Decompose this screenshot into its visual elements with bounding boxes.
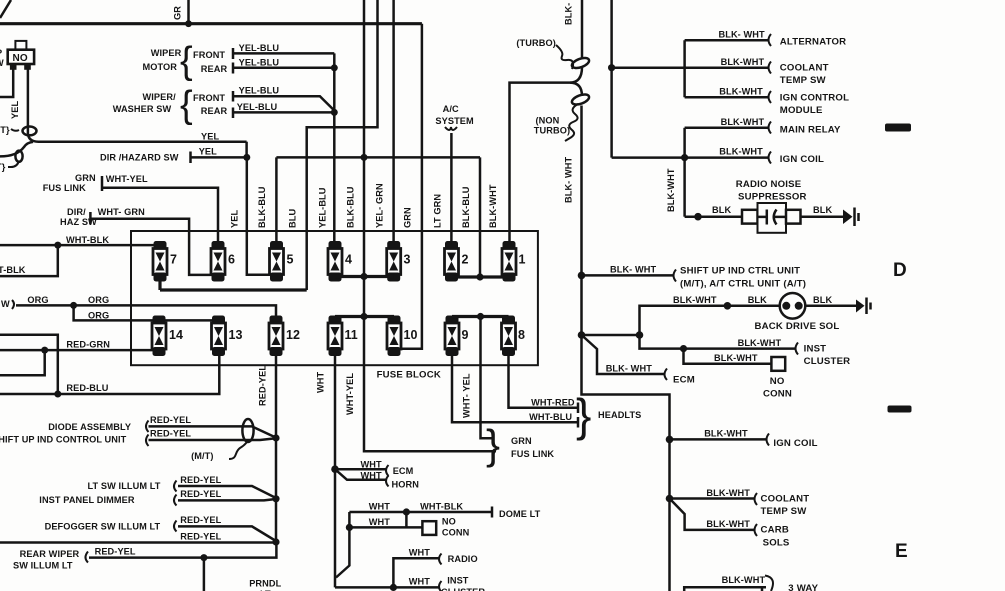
svg-text:A/C: A/C: [443, 104, 459, 114]
wire LT GRN from A/C to fuse 2: [450, 133, 453, 243]
svg-text:LT GRN: LT GRN: [433, 194, 443, 228]
fuse F3: [387, 241, 411, 282]
wire (M/T) second hook stub: [0, 161, 19, 172]
label RADIO NOISE SUPPRESSOR: [736, 179, 807, 203]
wire fuse 7 bottom rail: [160, 280, 307, 290]
wire WHT-YEL center: from rails down below block: [345, 317, 496, 452]
svg-text:MODULE: MODULE: [780, 105, 823, 116]
svg-text:BLK- WHT: BLK- WHT: [610, 265, 657, 275]
svg-text:7: 7: [170, 253, 177, 267]
fuse F8: [502, 316, 526, 357]
fuse F5: [270, 241, 294, 282]
solenoid BACK DRIVE SOL: [755, 293, 857, 332]
svg-text:RED-YEL: RED-YEL: [95, 547, 136, 557]
fuse F13: [212, 316, 243, 357]
svg-text:ORG: ORG: [88, 295, 109, 305]
fuse F9: [445, 316, 469, 357]
svg-text:WHT: WHT: [409, 548, 431, 558]
svg-text:RED-GRN: RED-GRN: [66, 340, 110, 350]
svg-text:E: E: [895, 541, 908, 562]
wire RED-GRN to fuse 14 bottom: [0, 340, 156, 376]
svg-text:INST: INST: [804, 344, 827, 355]
svg-text:INST: INST: [447, 576, 469, 586]
wire WHT to RADIO: [390, 548, 478, 591]
label DIR/HAZARD SW: [100, 132, 219, 164]
svg-text:PRNDL: PRNDL: [249, 579, 281, 589]
wire BLK-BLU center net: [276, 0, 480, 316]
svg-text:3 WAY: 3 WAY: [788, 583, 818, 591]
label FUSE BLOCK: [377, 370, 441, 381]
wire BLK-WHT to NO CONN (right): [684, 349, 793, 400]
svg-text:RED-YEL: RED-YEL: [150, 415, 191, 425]
svg-text:WHT-BLK: WHT-BLK: [420, 502, 463, 512]
svg-text:GRN: GRN: [403, 207, 413, 228]
svg-text:W: W: [0, 58, 4, 68]
svg-text:IGN CONTROL: IGN CONTROL: [780, 93, 849, 104]
fuse F7: [153, 241, 177, 282]
fuse F10: [387, 316, 417, 357]
svg-text:REAR WIPER: REAR WIPER: [20, 549, 80, 559]
wire RED-BLU to fuse 13 bottom: [0, 352, 219, 398]
svg-text:REAR: REAR: [201, 64, 228, 74]
svg-text:BLK-BLU: BLK-BLU: [346, 186, 356, 228]
svg-text:TEMP SW: TEMP SW: [761, 506, 808, 517]
wire NO switch left terminal to left edge: [0, 70, 13, 98]
label (TURBO) with squiggle: [516, 38, 573, 69]
svg-text:BLK-BLU: BLK-BLU: [461, 186, 471, 228]
svg-text:FUS LINK: FUS LINK: [511, 449, 554, 459]
wire wiper motor FRONT YEL-BLU: [233, 43, 334, 59]
wire BLU: top vertical jog to fuse 7 bottom rail: [307, 0, 378, 290]
wire washer REAR YEL-BLU: [233, 102, 338, 118]
svg-text:BLK-WHT: BLK-WHT: [738, 338, 782, 348]
wire WHT-GRN to fuse 6 bottom: [90, 219, 212, 275]
svg-text:WIPER/: WIPER/: [143, 92, 177, 102]
svg-text:WHT: WHT: [316, 371, 326, 393]
label DEFOGGER SW ILLUM LT: [45, 515, 222, 532]
connector ring non-turbo: [571, 92, 591, 106]
label DIR/HAZ SW: [60, 207, 145, 227]
wire YEL vertical to fuse 5 bottom: [247, 157, 270, 274]
wire WHT-BLU from fuse 9 to headlts: [452, 352, 578, 428]
svg-text:RADIO NOISE: RADIO NOISE: [736, 179, 802, 190]
svg-text:NO: NO: [442, 517, 456, 527]
svg-text:ECM: ECM: [673, 375, 695, 386]
svg-text:ORG: ORG: [27, 295, 48, 305]
svg-text:ORG: ORG: [88, 311, 109, 321]
letter E: [895, 541, 908, 562]
svg-text:INST PANEL DIMMER: INST PANEL DIMMER: [39, 495, 135, 505]
connector loop ellipse on diode/shift wires: [191, 419, 253, 461]
label SHIFT UP IND CONTROL UNIT: [0, 429, 191, 447]
wire BLK-WHT to IGN COIL (upper): [612, 128, 824, 165]
svg-text:YEL-BLU: YEL-BLU: [239, 43, 280, 53]
svg-text:BLK-WHT: BLK-WHT: [714, 353, 758, 363]
svg-text:TURBO): TURBO): [534, 126, 570, 136]
svg-text:YEL-BLU: YEL-BLU: [239, 86, 280, 96]
svg-text:P: P: [0, 48, 2, 58]
wire RED-YEL inst panel dimmer: [178, 495, 280, 502]
svg-text:RED-YEL: RED-YEL: [180, 532, 221, 542]
wire fuse 11 - fuse 10 top rail: [335, 313, 394, 320]
wire RED-YEL shift up ind control unit: [149, 434, 280, 441]
svg-text:IGN COIL: IGN COIL: [773, 438, 817, 449]
svg-text:RED-YEL: RED-YEL: [258, 365, 268, 406]
svg-text:2: 2: [462, 253, 469, 267]
svg-text:TEMP SW: TEMP SW: [780, 75, 827, 86]
label (NON TURBO) with squiggle: [534, 104, 578, 141]
svg-text:DIODE ASSEMBLY: DIODE ASSEMBLY: [48, 422, 131, 432]
svg-text:D: D: [893, 260, 907, 281]
label INST PANEL DIMMER: [39, 489, 221, 506]
svg-text:COOLANT: COOLANT: [761, 494, 810, 505]
wire WHT to HORN: [335, 469, 419, 489]
svg-text:LT SW ILLUM LT: LT SW ILLUM LT: [88, 481, 161, 491]
wire WHT-RED from fuse 8 to headlts: [509, 352, 579, 413]
svg-text:BLK-WHT: BLK-WHT: [706, 519, 750, 529]
label DIODE ASSEMBLY: [48, 415, 191, 432]
wire WHT-BLK left edge jog: [0, 245, 58, 276]
fuse F11: [328, 316, 358, 357]
svg-text:BLK-: BLK-: [564, 3, 574, 25]
svg-text:{: {: [180, 84, 193, 126]
wire GRN vertical into fuse block to fuse 10: [392, 24, 422, 349]
fuse block outline: [131, 231, 538, 365]
svg-text:11: 11: [345, 328, 358, 342]
svg-text:BLK-WHT: BLK-WHT: [673, 295, 717, 305]
wire BLK-WHT to SHIFT UP IND CTRL UNIT: [578, 265, 806, 290]
fuse F1: [502, 241, 526, 282]
letter D: [893, 260, 907, 281]
ground suppressor: [843, 208, 859, 227]
svg-text:RED-YEL: RED-YEL: [180, 515, 221, 525]
svg-text:WHT-RED: WHT-RED: [531, 398, 575, 408]
svg-text:BLK-WHT: BLK-WHT: [719, 87, 763, 97]
wire WHT branch riser for dome/no-conn: [336, 512, 349, 578]
wire WHT / WHT-BLK to DOME LT: [349, 502, 540, 520]
wire BLK-WHT from turbo junction to fuse 1: [510, 67, 583, 243]
svg-text:BLK-WHT: BLK-WHT: [719, 147, 763, 157]
svg-text:BLK-WHT: BLK-WHT: [488, 184, 498, 228]
svg-text:MAIN RELAY: MAIN RELAY: [780, 125, 841, 136]
svg-text:SYSTEM: SYSTEM: [435, 116, 474, 126]
svg-text:{: {: [180, 40, 193, 82]
svg-text:(M/T), A/T CTRL UNIT (A/T): (M/T), A/T CTRL UNIT (A/T): [680, 279, 806, 290]
svg-text:RED-YEL: RED-YEL: [180, 475, 221, 485]
label GRN FUS LINK brace: [486, 421, 554, 468]
svg-text:BLK: BLK: [813, 205, 832, 215]
svg-text:YEL-BLU: YEL-BLU: [318, 187, 328, 228]
svg-text:ECM: ECM: [393, 466, 414, 476]
svg-text:WASHER SW: WASHER SW: [113, 104, 172, 114]
svg-text:YEL-BLU: YEL-BLU: [237, 102, 278, 112]
wire top-left diagonal stub: [0, 0, 11, 18]
wire BLK-WHT main vertical down right side: [564, 106, 582, 336]
svg-text:YEL: YEL: [230, 210, 240, 228]
svg-text:14: 14: [169, 328, 183, 342]
fuse F12: [269, 316, 300, 357]
wire WHT-YEL fus link to fuse 6 top: [102, 188, 218, 243]
wire washer FRONT YEL-BLU: [233, 86, 334, 111]
svg-text:GRN: GRN: [75, 173, 96, 183]
svg-text:BLK: BLK: [712, 205, 731, 215]
node GRN top rail with junction: [0, 0, 422, 27]
wire WHT from fuse 11 down: [316, 352, 336, 469]
wire BLK-WHT to ECM (right): [582, 335, 695, 386]
wire BLK-WHT / BLK to BACK DRIVE SOL: [640, 295, 781, 335]
wire YEL-BLU vertical to fuse 4: [333, 53, 336, 243]
svg-text:FRONT: FRONT: [193, 50, 225, 60]
wire BLK-WHT to CARB SOLS: [670, 499, 790, 549]
svg-text:T}: T}: [0, 162, 6, 172]
svg-text:RED-YEL: RED-YEL: [180, 489, 221, 499]
wire BLK-WHT to COOLANT TEMP SW (lower): [666, 488, 810, 517]
svg-text:BLK-WHT: BLK-WHT: [721, 57, 765, 67]
wire lower-left line merging into YEL bundle: [0, 142, 33, 162]
label PRNDL LT: [249, 579, 281, 591]
svg-text:BLK-WHT: BLK-WHT: [704, 429, 748, 439]
fuse F4: [328, 241, 352, 282]
svg-text:SW ILLUM LT: SW ILLUM LT: [13, 561, 73, 571]
switch NO (normally-open) connector top-left: [0, 41, 34, 70]
svg-text:BLK-BLU: BLK-BLU: [257, 186, 267, 228]
wire RED-YEL from fuse 12 down: [258, 352, 277, 542]
svg-text:HEADLTS: HEADLTS: [598, 410, 641, 420]
svg-text:WHT: WHT: [369, 502, 391, 512]
wire RED-YEL long line from left edge: [0, 532, 280, 546]
label WIPER/WASHER SW with brace: [113, 84, 228, 126]
svg-text:YEL- GRN: YEL- GRN: [375, 183, 385, 228]
svg-text:BACK DRIVE SOL: BACK DRIVE SOL: [755, 321, 840, 332]
svg-text:CARB: CARB: [761, 525, 790, 536]
wire fuse 2 - fuse 1 bottom rail: [452, 273, 510, 280]
svg-text:5: 5: [287, 253, 294, 267]
svg-text:9: 9: [462, 328, 469, 342]
label A/C SYSTEM: [435, 104, 474, 130]
svg-text:FUSE BLOCK: FUSE BLOCK: [377, 370, 441, 381]
connector 3 WAY at bottom right: [684, 575, 818, 591]
wire RED-YEL diode assembly: [149, 426, 277, 437]
wire RED-YEL lt sw illum: [178, 486, 276, 498]
wire BLK-WHT drop to suppressor: [666, 158, 685, 217]
svg-text:(NON: (NON: [536, 116, 560, 126]
wire ORG branch to fuse 14 / fuse 13 tops: [74, 305, 219, 320]
svg-text:YEL: YEL: [199, 147, 217, 157]
wire BLK-WHT engine harness vertical: [610, 0, 613, 158]
svg-text:CLUSTER: CLUSTER: [441, 587, 485, 591]
wire RED-YEL defogger: [178, 526, 276, 541]
connector loop ellipse on YEL wire: [23, 126, 37, 135]
vertical wire colour labels above fuse block: [230, 183, 499, 228]
wire YEL dir/hazard lower line: [191, 142, 251, 161]
svg-text:(TURBO): (TURBO): [516, 38, 555, 48]
svg-text:10: 10: [404, 328, 418, 342]
svg-text:DIR/: DIR/: [67, 207, 86, 217]
wire BLK-WHT to ALTERNATOR: [685, 30, 847, 48]
svg-text:WHT- YEL: WHT- YEL: [462, 373, 472, 418]
svg-text:CONN: CONN: [442, 528, 470, 538]
svg-text:RADIO: RADIO: [448, 554, 478, 564]
svg-text:WIPER: WIPER: [151, 48, 182, 58]
svg-text:BLK-WHT: BLK-WHT: [666, 168, 676, 212]
svg-text:4: 4: [345, 253, 352, 267]
svg-text:BLK- WHT: BLK- WHT: [564, 156, 574, 203]
wire BLK-WHT to MAIN RELAY: [685, 117, 841, 136]
svg-text:T-BLK: T-BLK: [0, 265, 26, 275]
svg-text:}: }: [486, 421, 500, 468]
wire fuse 9 - fuse 8 top rail: [452, 313, 509, 320]
svg-text:NO: NO: [770, 376, 785, 387]
wire BLK-WHT to COOLANT TEMP SW: [608, 57, 829, 86]
svg-text:12: 12: [286, 328, 300, 342]
svg-text:SOLS: SOLS: [763, 538, 790, 549]
fuse F14: [152, 316, 183, 357]
svg-text:WHT-YEL: WHT-YEL: [345, 373, 355, 415]
svg-text:SUPPRESSOR: SUPPRESSOR: [738, 192, 807, 203]
fuse F2: [445, 241, 469, 282]
wire WHT main vertical to bottom rail: [334, 469, 337, 587]
connector ring turbo: [571, 56, 591, 70]
wire WHT to NO CONN box: [346, 512, 470, 538]
wire BLK-WHT to IGN CONTROL MODULE: [685, 40, 850, 116]
svg-text:BLK-WHT: BLK-WHT: [721, 117, 765, 127]
wire BLK- main vertical from top (turbo connector): [564, 0, 583, 58]
svg-text:BLK-WHT: BLK-WHT: [722, 575, 766, 585]
svg-text:BLK- WHT: BLK- WHT: [719, 30, 766, 40]
svg-text:1: 1: [519, 253, 526, 267]
svg-text:BLK: BLK: [748, 295, 767, 305]
svg-text:HORN: HORN: [392, 480, 420, 490]
svg-text:IGN COIL: IGN COIL: [780, 154, 824, 165]
svg-text:YEL: YEL: [10, 101, 20, 119]
svg-text:BLK-WHT: BLK-WHT: [706, 488, 750, 498]
wire WHT-YEL right: from fuse9/8 rail down to fus link: [462, 317, 493, 439]
svg-text:WHT-YEL: WHT-YEL: [106, 174, 148, 184]
svg-text:DIR /HAZARD SW: DIR /HAZARD SW: [100, 153, 179, 163]
svg-text:SHIFT UP IND CTRL UNIT: SHIFT UP IND CTRL UNIT: [680, 266, 800, 277]
wire BLK-WHT to IGN COIL (lower): [666, 429, 818, 450]
ground back drive sol: [856, 298, 871, 315]
svg-text:DOME LT: DOME LT: [499, 509, 541, 519]
wire YEL-GRN from top to fuse 3: [392, 0, 395, 243]
svg-text:BLK: BLK: [813, 295, 832, 305]
wire YEL from NO switch down with (M/T) loop, curving right: [10, 70, 247, 142]
svg-text:W: W: [1, 299, 10, 309]
wire junction row to INST CLUSTER: [578, 331, 851, 367]
svg-text:WHT: WHT: [369, 517, 391, 527]
wire (M/T) hook stub upper-left: [0, 125, 19, 135]
svg-text:YEL: YEL: [201, 132, 219, 142]
svg-text:8: 8: [518, 328, 525, 342]
svg-text:WHT-BLK: WHT-BLK: [66, 235, 109, 245]
svg-text:6: 6: [228, 253, 235, 267]
wire BLK-WHT main continues to lower right: [582, 335, 670, 591]
label HEADLTS with brace: [576, 389, 641, 441]
svg-text:RED-YEL: RED-YEL: [150, 429, 191, 439]
label GRN FUS LINK: [43, 173, 148, 193]
svg-text:CONN: CONN: [763, 389, 792, 400]
svg-text:WHT-BLU: WHT-BLU: [529, 412, 572, 422]
svg-text:GRN: GRN: [511, 436, 532, 446]
wire fuse 4 - fuse 3 bottom rail: [335, 273, 394, 280]
wire WHT bottom rail to INST CLUSTER: [335, 576, 485, 591]
wire ORG main line to fuse 12: [1, 295, 276, 317]
svg-text:FUS LINK: FUS LINK: [43, 183, 86, 193]
svg-text:YT}: YT}: [0, 125, 10, 135]
bar marker E: [888, 406, 912, 413]
svg-text:DEFOGGER SW ILLUM LT: DEFOGGER SW ILLUM LT: [45, 522, 161, 532]
svg-text:CLUSTER: CLUSTER: [804, 356, 851, 367]
svg-text:WHT- GRN: WHT- GRN: [98, 207, 146, 217]
svg-text:MOTOR: MOTOR: [143, 62, 178, 72]
label WIPER MOTOR with brace: [143, 40, 228, 82]
wire wiper motor REAR YEL-BLU: [233, 58, 338, 74]
bar marker D: [885, 124, 911, 132]
wire WHT to ECM: [331, 460, 413, 477]
wire RED-YEL rear wiper: [89, 542, 276, 561]
svg-text:}: }: [576, 389, 591, 441]
svg-text:RED-BLU: RED-BLU: [66, 383, 108, 393]
svg-text:NO: NO: [13, 53, 28, 64]
wire left edge rectangle to RED-BLU: [0, 335, 58, 394]
svg-text:ALTERNATOR: ALTERNATOR: [780, 37, 847, 48]
svg-text:COOLANT: COOLANT: [780, 63, 829, 74]
svg-text:FRONT: FRONT: [193, 93, 225, 103]
fuse F6: [211, 241, 235, 282]
wire down from rear wiper junction: [203, 558, 206, 591]
svg-text:BLK- WHT: BLK- WHT: [606, 364, 653, 374]
label REAR WIPER SW ILLUM LT: [13, 547, 136, 571]
svg-text:WHT: WHT: [409, 577, 431, 587]
svg-text:3: 3: [404, 253, 411, 267]
svg-text:BLU: BLU: [288, 209, 298, 228]
svg-text:(M/T): (M/T): [191, 451, 213, 461]
svg-text:13: 13: [229, 328, 243, 342]
svg-text:SHIFT UP IND CONTROL UNIT: SHIFT UP IND CONTROL UNIT: [0, 435, 127, 445]
svg-text:GR: GR: [173, 6, 183, 20]
label LT SW ILLUM LT: [88, 475, 222, 492]
capacitor radio noise suppressor: [685, 203, 843, 233]
svg-text:YEL-BLU: YEL-BLU: [239, 58, 280, 68]
svg-text:REAR: REAR: [201, 106, 228, 116]
wire WHT-BLK to fuse 7 top: [0, 235, 154, 249]
